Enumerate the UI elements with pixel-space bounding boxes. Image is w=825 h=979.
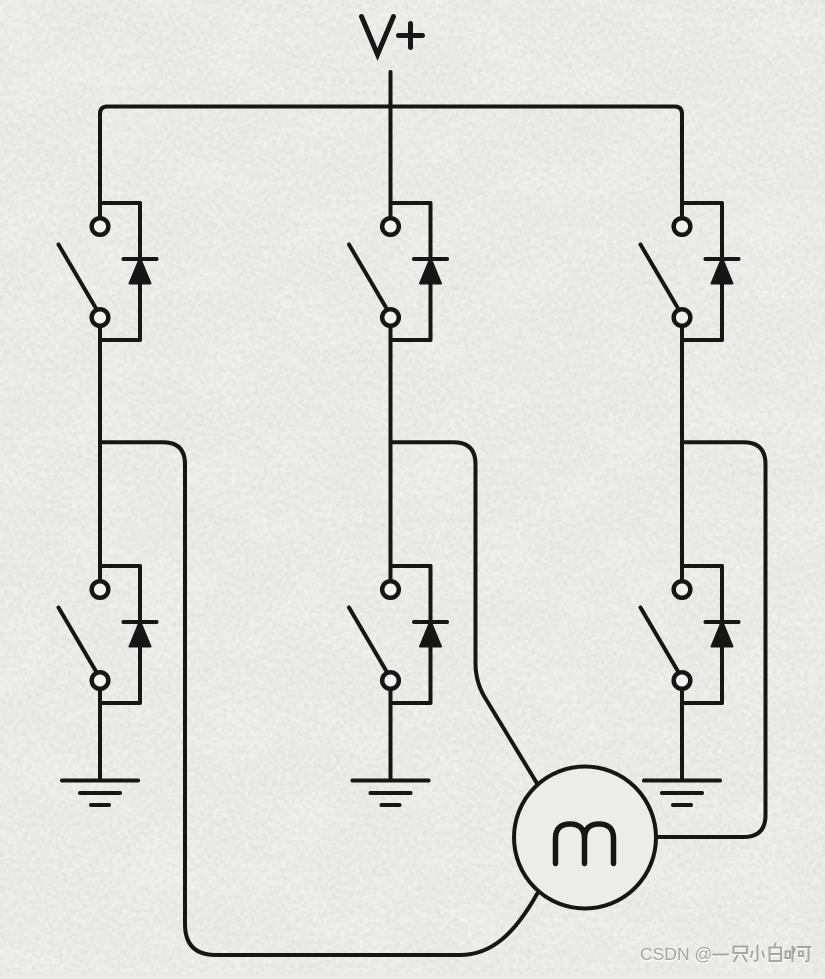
svg-text:CSDN @: CSDN @	[640, 944, 712, 964]
